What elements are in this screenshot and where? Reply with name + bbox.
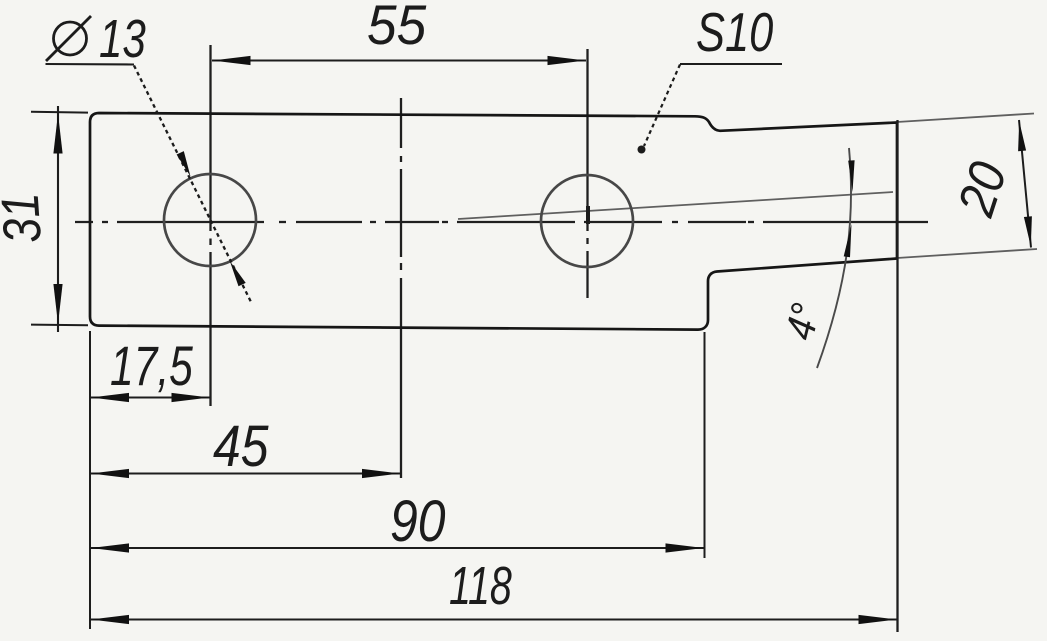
bottom taper edge extension (thin) — [897, 249, 1037, 258]
dimension 90 left arrow — [91, 543, 129, 552]
thick crossing mark at hole 2 center — [586, 206, 590, 224]
31 bottom extension line — [31, 324, 88, 327]
dimension 55 left arrow — [213, 56, 251, 65]
dimension 20 top arrow — [1018, 121, 1026, 151]
right end / 118 extension line — [896, 120, 898, 632]
diameter leader Ø13 shelf — [46, 63, 135, 66]
31 top extension line — [31, 111, 88, 114]
vertical dash-dot axis at 45 (taper vertex line) — [400, 98, 402, 478]
left extension line below part — [89, 331, 91, 629]
hole 1 circle Ø13 — [164, 174, 256, 266]
svg-text:118: 118 — [449, 556, 512, 617]
hole 1 vertical axis / 55 and 17,5 extension line — [209, 45, 211, 406]
dimension 45 right arrow — [362, 469, 400, 478]
svg-text:S10: S10 — [696, 1, 774, 63]
top taper edge extension (thin) — [897, 114, 1034, 123]
S10 shelf — [680, 63, 782, 65]
4 deg arc lower arrow — [844, 224, 852, 257]
diameter leader arrow at top of hole 1 — [177, 151, 191, 176]
inclined taper axis (4 deg construction line) — [458, 192, 893, 219]
horizontal centerline (dash-dot) — [75, 221, 928, 223]
dimension 31 top arrow — [53, 114, 62, 154]
dimension 17,5 line — [90, 397, 210, 399]
dimension 20 line — [1019, 120, 1031, 248]
dimension 31 bottom arrow — [53, 284, 62, 324]
hole 2 circle Ø13 — [541, 175, 633, 267]
4 deg arc upper arrow — [848, 160, 854, 192]
svg-text:55: 55 — [367, 0, 427, 56]
diameter leader Ø13 dashed line — [134, 66, 252, 305]
4 deg dimension arc — [817, 148, 851, 368]
S10 dashed leader — [644, 65, 680, 147]
dimension 55 right arrow — [548, 56, 586, 65]
dimension 45 line — [90, 473, 401, 475]
S10 leader end dot — [638, 146, 646, 154]
dimension 20 bottom arrow — [1024, 216, 1032, 246]
svg-text:31: 31 — [0, 191, 53, 245]
90 extension line — [704, 332, 706, 558]
dimension 17,5 right arrow — [172, 393, 210, 402]
dimension 17,5 left arrow — [91, 393, 129, 402]
dimension 118 left arrow — [91, 615, 129, 624]
Ø symbol — [46, 16, 91, 61]
svg-text:13: 13 — [99, 9, 146, 69]
dimension 90 right arrow — [666, 543, 704, 552]
dimension 31 line — [57, 106, 59, 332]
dimension 55 line — [212, 60, 586, 62]
svg-text:90: 90 — [390, 490, 445, 554]
svg-text:17,5: 17,5 — [110, 334, 193, 397]
part outline — [90, 113, 897, 330]
hole 2 vertical axis / 55 extension line — [586, 49, 588, 298]
dimension 90 line — [90, 547, 704, 549]
dimension 118 line — [90, 619, 897, 621]
dimension 45 left arrow — [91, 469, 129, 478]
diameter leader arrow at bottom of hole 1 — [230, 261, 246, 286]
svg-text:45: 45 — [213, 415, 269, 479]
dimension 118 right arrow — [859, 615, 897, 624]
